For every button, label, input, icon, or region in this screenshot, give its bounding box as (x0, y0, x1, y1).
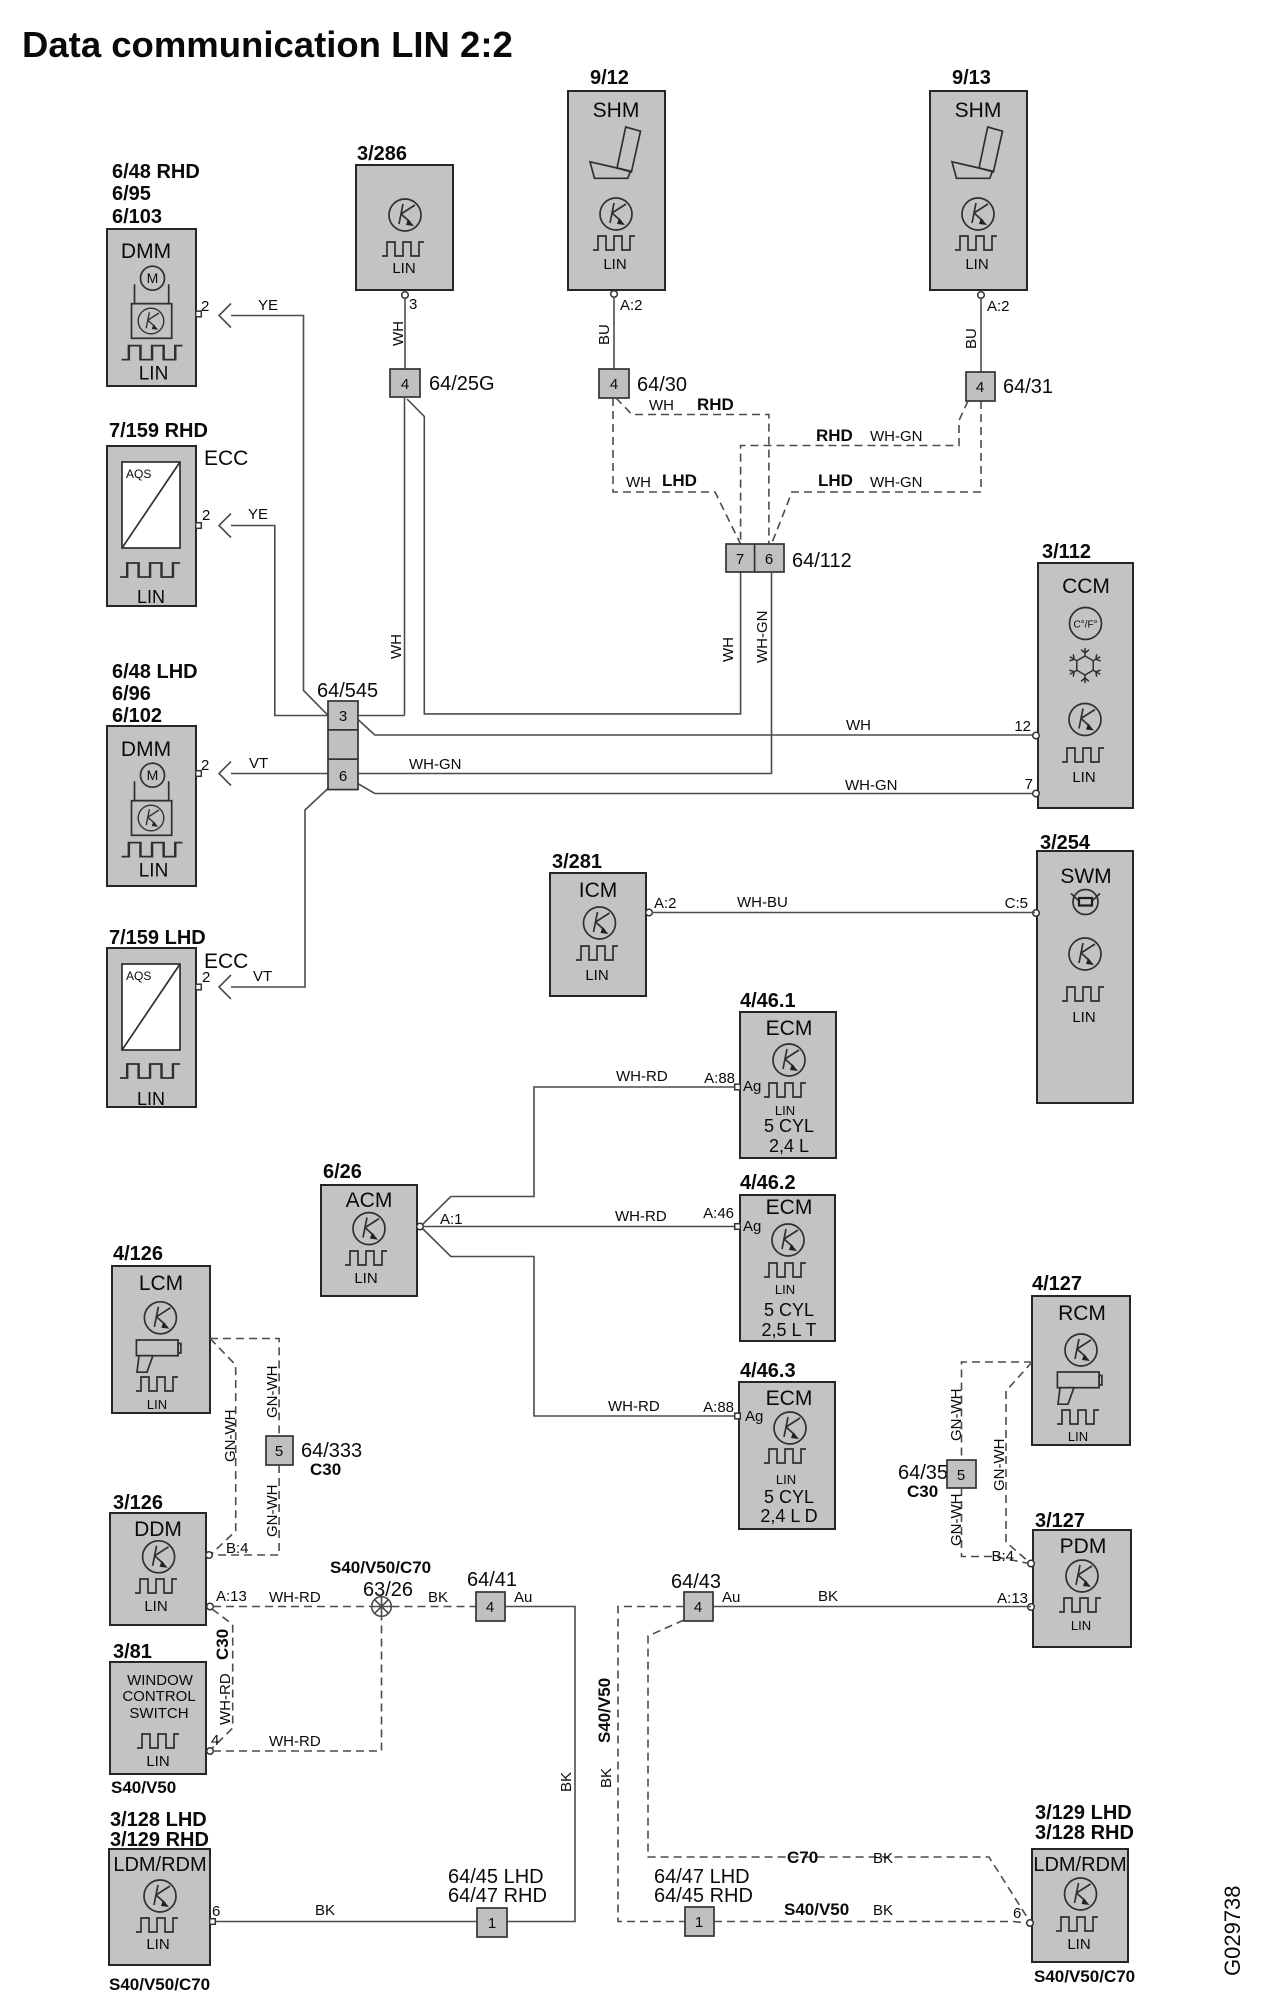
wire WH RHD 64/30 to 64/112 pin 6 (dashed) (616, 395, 769, 544)
module ECM 4/46.3 (739, 1360, 835, 1529)
svg-text:3: 3 (339, 708, 347, 725)
pin A:2 of ICM (646, 909, 653, 916)
svg-text:7: 7 (736, 551, 744, 568)
svg-text:64/31: 64/31 (1003, 376, 1053, 398)
pin B:4 of DDM (206, 1552, 213, 1559)
svg-text:3/129 LHD: 3/129 LHD (1035, 1802, 1132, 1824)
svg-text:SHM: SHM (593, 99, 640, 122)
svg-text:SWITCH: SWITCH (129, 1705, 188, 1722)
module WINDOW CONTROL SWITCH 3/81 (110, 1641, 206, 1797)
svg-text:GN-WH: GN-WH (948, 1494, 965, 1547)
svg-text:GN-WH: GN-WH (264, 1485, 281, 1538)
svg-text:A:13: A:13 (216, 1588, 247, 1605)
svg-text:YE: YE (258, 297, 278, 314)
svg-text:5 CYL: 5 CYL (764, 1487, 814, 1507)
wire WH-RD ACM to ECM 4/46.1 pin A:88 (423, 1068, 735, 1224)
connector 64/112 pins 7 and 6 (726, 544, 852, 572)
pin 2 of ECC LHD (196, 984, 202, 990)
svg-text:9/13: 9/13 (952, 67, 991, 89)
module CCM 3/112 (1038, 541, 1133, 808)
svg-text:LIN: LIN (146, 1936, 169, 1953)
svg-text:C70: C70 (787, 1848, 818, 1867)
svg-text:Au: Au (514, 1589, 532, 1606)
svg-text:2: 2 (201, 757, 209, 774)
svg-text:LIN: LIN (137, 1089, 165, 1109)
svg-text:LDM/RDM: LDM/RDM (113, 1854, 206, 1876)
svg-text:64/35: 64/35 (898, 1462, 948, 1484)
svg-text:7/159 LHD: 7/159 LHD (109, 927, 206, 949)
svg-text:C30: C30 (310, 1460, 341, 1479)
svg-text:WH-RD: WH-RD (615, 1208, 667, 1225)
wire C70 BK 64/43 to LDM/RDM right pin 6 (dashed) (648, 1620, 1030, 1921)
svg-text:LCM: LCM (139, 1272, 183, 1295)
svg-text:RCM: RCM (1058, 1302, 1106, 1325)
module SHM 9/12 (568, 67, 665, 290)
svg-text:LIN: LIN (775, 1282, 795, 1297)
svg-text:3/126: 3/126 (113, 1492, 163, 1514)
wire BK splice to 64/41 (dashed) (392, 1589, 477, 1607)
svg-text:BU: BU (596, 324, 613, 345)
svg-text:6/26: 6/26 (323, 1161, 362, 1183)
svg-text:6/102: 6/102 (112, 705, 162, 727)
svg-text:BK: BK (598, 1768, 615, 1788)
svg-text:CCM: CCM (1062, 575, 1110, 598)
svg-text:BK: BK (558, 1772, 575, 1792)
svg-text:B:4: B:4 (226, 1540, 249, 1557)
svg-text:64/112: 64/112 (792, 550, 852, 572)
svg-text:C30: C30 (907, 1482, 938, 1501)
svg-text:WH-RD: WH-RD (217, 1673, 234, 1725)
svg-text:4/46.3: 4/46.3 (740, 1360, 796, 1382)
connector 64/47 LHD / 64/45 RHD (654, 1866, 753, 1936)
svg-text:2,4 L D: 2,4 L D (760, 1506, 817, 1526)
svg-text:BK: BK (315, 1902, 335, 1919)
connector 64/545 pins 3 and 6 (317, 680, 378, 790)
svg-text:S40/V50: S40/V50 (784, 1900, 849, 1919)
svg-text:A:2: A:2 (620, 297, 643, 314)
pin 6 of LDM/RDM right (1027, 1920, 1034, 1927)
svg-text:LIN: LIN (1072, 769, 1095, 786)
module ACM 6/26 (321, 1161, 417, 1296)
svg-text:ICM: ICM (579, 879, 618, 902)
svg-text:A:2: A:2 (654, 895, 677, 912)
module PDM 3/127 (1033, 1510, 1131, 1647)
svg-text:A:13: A:13 (997, 1590, 1028, 1607)
module LDM/RDM 3/128 LHD left (109, 1809, 210, 1994)
module ECC 7/159 RHD (107, 420, 248, 607)
svg-text:WH-RD: WH-RD (608, 1398, 660, 1415)
svg-text:64/333: 64/333 (301, 1440, 362, 1462)
svg-text:SWM: SWM (1060, 865, 1111, 888)
svg-text:5 CYL: 5 CYL (764, 1300, 814, 1320)
svg-text:C:5: C:5 (1005, 895, 1028, 912)
svg-text:64/30: 64/30 (637, 374, 687, 396)
wire YE DMM RHD to 64/545 pin 3 (219, 297, 328, 715)
svg-text:DMM: DMM (121, 240, 171, 263)
svg-text:4: 4 (211, 1732, 219, 1749)
svg-text:2,5 L T: 2,5 L T (761, 1320, 816, 1340)
svg-text:6: 6 (339, 768, 347, 785)
wire GN-WH LCM through 64/333 (dashed) (210, 1339, 281, 1437)
svg-text:LIN: LIN (585, 967, 608, 984)
wire WH-RD DDM A:13 to splice 63/26 (dashed) (213, 1589, 371, 1607)
wire C30 WH-RD DDM A:13 to window switch pin 4 (dashed) (212, 1609, 234, 1749)
wire BK 64/43 to PDM A:13 (solid) (713, 1588, 1031, 1607)
svg-text:1: 1 (695, 1914, 703, 1931)
svg-text:LIN: LIN (146, 1753, 169, 1770)
svg-text:64/43: 64/43 (671, 1571, 721, 1593)
svg-text:WH: WH (388, 634, 405, 659)
svg-text:BK: BK (873, 1850, 893, 1867)
svg-text:1: 1 (488, 1915, 496, 1932)
svg-text:Au: Au (722, 1589, 740, 1606)
pin A:88 of ECM 4/46.3 (735, 1413, 741, 1419)
svg-text:6: 6 (1013, 1905, 1021, 1922)
wire VT ECC LHD to 64/545 pin 6 (219, 789, 328, 1000)
svg-text:6/103: 6/103 (112, 206, 162, 228)
svg-text:WH: WH (390, 321, 407, 346)
svg-text:7: 7 (1025, 776, 1033, 793)
svg-text:WH-BU: WH-BU (737, 894, 788, 911)
pin 2 of DMM RHD (196, 311, 202, 317)
svg-text:6: 6 (765, 551, 773, 568)
svg-text:G029738: G029738 (1220, 1885, 1245, 1976)
module 3/286 LIN node (356, 143, 453, 290)
svg-text:B:4: B:4 (991, 1548, 1014, 1565)
svg-text:4: 4 (976, 379, 984, 396)
svg-text:S40/V50/C70: S40/V50/C70 (330, 1558, 431, 1577)
svg-text:ECM: ECM (766, 1387, 813, 1410)
wire WH-RD ACM to ECM 4/46.3 pin A:88 (423, 1229, 735, 1416)
svg-text:LIN: LIN (137, 587, 165, 607)
svg-text:BK: BK (818, 1588, 838, 1605)
svg-text:4/46.2: 4/46.2 (740, 1172, 796, 1194)
module RCM 4/127 (1032, 1273, 1130, 1445)
svg-text:12: 12 (1014, 718, 1031, 735)
wire BK 64/41 to 64/45 LHD connector (solid) (505, 1607, 575, 1922)
svg-text:LIN: LIN (1067, 1936, 1090, 1953)
svg-text:C30: C30 (213, 1629, 232, 1660)
wire GN-WH RCM to PDM B:4 direct (dashed) (991, 1362, 1032, 1562)
svg-text:SHM: SHM (955, 99, 1002, 122)
svg-text:LHD: LHD (662, 471, 697, 490)
svg-text:S40/V50/C70: S40/V50/C70 (1034, 1967, 1135, 1986)
wire WH 64/545 pin 3 to CCM pin 12 (359, 717, 1036, 735)
wire WH LHD 64/30 to 64/112 pin 7 (dashed) (613, 398, 741, 544)
wire S40/V50 BK 64/47 to LDM/RDM right pin 6 (dashed) (714, 1900, 1028, 1923)
wire BU SHM 9/13 to 64/31 (980, 298, 982, 372)
svg-text:4: 4 (486, 1599, 494, 1616)
svg-text:3: 3 (409, 296, 417, 313)
svg-text:3/129 RHD: 3/129 RHD (110, 1829, 209, 1851)
svg-text:Ag: Ag (745, 1408, 763, 1425)
svg-text:ECC: ECC (204, 950, 248, 973)
pin 12 of CCM (1033, 732, 1040, 739)
svg-text:WH: WH (720, 637, 737, 662)
svg-text:2: 2 (202, 969, 210, 986)
splice 63/26 S40/V50/C70 (330, 1558, 431, 1617)
svg-text:ECC: ECC (204, 447, 248, 470)
wire WH-BU ICM to SWM C:5 (652, 894, 1035, 913)
svg-text:S40/V50: S40/V50 (595, 1678, 614, 1743)
svg-text:7/159 RHD: 7/159 RHD (109, 420, 208, 442)
svg-text:6/95: 6/95 (112, 183, 151, 205)
svg-text:PDM: PDM (1060, 1535, 1107, 1558)
svg-text:ACM: ACM (346, 1189, 393, 1212)
pin 3 of 3/286 (402, 292, 409, 299)
wire WH 64/25G down to 64/545 pin 3 (359, 397, 406, 716)
module SHM 9/13 (930, 67, 1027, 290)
pin 2 of DMM LHD (196, 771, 202, 777)
connector 64/25G (390, 369, 495, 397)
svg-text:4: 4 (401, 376, 409, 393)
wire BU SHM 9/12 to 64/30 (613, 297, 615, 369)
svg-text:3/127: 3/127 (1035, 1510, 1085, 1532)
svg-text:6: 6 (212, 1903, 220, 1920)
svg-text:BK: BK (428, 1589, 448, 1606)
svg-text:WH-GN: WH-GN (870, 474, 923, 491)
svg-text:LIN: LIN (354, 1270, 377, 1287)
svg-text:4/126: 4/126 (113, 1243, 163, 1265)
svg-text:GN-WH: GN-WH (222, 1410, 239, 1463)
pin C:5 of SWM (1033, 910, 1040, 917)
svg-text:3/286: 3/286 (357, 143, 407, 165)
svg-text:5 CYL: 5 CYL (764, 1116, 814, 1136)
svg-text:LIN: LIN (776, 1472, 796, 1487)
wire WH-GN RHD 64/31 to 64/112 pin 7 (dashed) (741, 401, 968, 544)
pin A:2 of SHM 9/13 (978, 292, 985, 299)
svg-text:6/48 RHD: 6/48 RHD (112, 161, 200, 183)
module DMM 6/48 RHD (107, 161, 200, 386)
svg-text:3/112: 3/112 (1042, 541, 1091, 563)
svg-text:2: 2 (202, 507, 210, 524)
svg-text:4: 4 (694, 1599, 702, 1616)
module SWM 3/254 (1037, 832, 1133, 1103)
wire WH-GN 64/545 pin 6 to CCM pin 7 (359, 777, 1036, 794)
svg-text:A:46: A:46 (703, 1205, 734, 1222)
svg-text:A:88: A:88 (704, 1070, 735, 1087)
svg-text:GN-WH: GN-WH (991, 1439, 1008, 1492)
module ECM 4/46.2 (740, 1172, 835, 1341)
pin A:13 of PDM (1028, 1604, 1035, 1611)
svg-text:LIN: LIN (144, 1598, 167, 1615)
svg-text:2,4 L: 2,4 L (769, 1136, 809, 1156)
svg-text:WH-RD: WH-RD (269, 1733, 321, 1750)
module ECM 4/46.1 (740, 990, 836, 1158)
svg-text:LIN: LIN (965, 256, 988, 273)
wire WH-RD window switch pin 4 to splice (dashed) (213, 1617, 382, 1752)
pin A:2 of SHM 9/12 (611, 291, 618, 298)
svg-text:4/46.1: 4/46.1 (740, 990, 796, 1012)
module DDM 3/126 (110, 1492, 206, 1625)
svg-text:63/26: 63/26 (363, 1579, 413, 1601)
svg-text:ECM: ECM (766, 1017, 813, 1040)
svg-text:LIN: LIN (1071, 1618, 1091, 1633)
connector 64/30 (599, 369, 687, 398)
svg-text:DMM: DMM (121, 738, 171, 761)
svg-text:BU: BU (963, 328, 980, 349)
module ECC 7/159 LHD (107, 927, 248, 1109)
pin 4 of window control switch (207, 1748, 214, 1755)
pin 6 of LDM/RDM left (210, 1919, 216, 1925)
svg-text:LIN: LIN (392, 260, 415, 277)
svg-text:VT: VT (249, 755, 268, 772)
svg-text:LDM/RDM: LDM/RDM (1033, 1854, 1126, 1876)
svg-text:LIN: LIN (603, 256, 626, 273)
svg-text:6/96: 6/96 (112, 683, 151, 705)
svg-text:GN-WH: GN-WH (948, 1389, 965, 1442)
pin 7 of CCM (1033, 790, 1040, 797)
pin A:88 of ECM 4/46.1 (735, 1084, 741, 1090)
svg-text:WH: WH (846, 717, 871, 734)
svg-text:WH-GN: WH-GN (870, 428, 923, 445)
svg-text:4/127: 4/127 (1032, 1273, 1082, 1295)
svg-text:A:1: A:1 (440, 1211, 463, 1228)
svg-text:3/281: 3/281 (552, 851, 602, 873)
module LDM/RDM 3/129 LHD right (1032, 1802, 1135, 1986)
svg-text:3/81: 3/81 (113, 1641, 152, 1663)
svg-text:64/25G: 64/25G (429, 373, 495, 395)
pin A:46 of ECM 4/46.2 (735, 1224, 741, 1230)
wire S40/V50 BK 64/43 to 64/47 LHD connector (dashed) (595, 1607, 685, 1922)
connector 64/35 C30 (898, 1460, 976, 1501)
svg-text:WH: WH (626, 474, 651, 491)
svg-text:9/12: 9/12 (590, 67, 629, 89)
wire WH-GN LHD 64/31 to 64/112 pin 6 (dashed) (772, 401, 982, 544)
svg-text:RHD: RHD (816, 426, 853, 445)
svg-text:Data communication LIN 2:2: Data communication LIN 2:2 (22, 24, 513, 65)
svg-text:WH: WH (649, 397, 674, 414)
svg-text:S40/V50: S40/V50 (111, 1778, 176, 1797)
svg-text:LIN: LIN (147, 1397, 167, 1412)
svg-text:64/545: 64/545 (317, 680, 378, 702)
svg-text:A:2: A:2 (987, 298, 1010, 315)
svg-text:WINDOW: WINDOW (127, 1672, 194, 1689)
svg-text:6/48 LHD: 6/48 LHD (112, 661, 198, 683)
svg-text:RHD: RHD (697, 395, 734, 414)
connector 64/43 (671, 1571, 740, 1621)
svg-text:WH-RD: WH-RD (616, 1068, 668, 1085)
svg-text:3/128 LHD: 3/128 LHD (110, 1809, 207, 1831)
wire VT DMM LHD to 64/545 pin 6 (219, 755, 328, 786)
svg-text:64/47 RHD: 64/47 RHD (448, 1885, 547, 1907)
svg-text:DDM: DDM (134, 1518, 182, 1541)
connector 64/333 C30 (266, 1436, 362, 1479)
svg-text:LIN: LIN (1072, 1009, 1095, 1026)
wire GN-WH 64/35 to PDM B:4 (dashed) (948, 1488, 1029, 1564)
svg-text:GN-WH: GN-WH (264, 1366, 281, 1419)
wire WH 3/286 to 64/25G (404, 298, 406, 369)
wire WH-RD ACM to ECM 4/46.2 pin A:46 (423, 1208, 734, 1227)
svg-text:LIN: LIN (1068, 1429, 1088, 1444)
svg-text:2: 2 (201, 298, 209, 315)
wire GN-WH 64/333 to DDM B:4 (dashed) (213, 1465, 281, 1555)
svg-text:CONTROL: CONTROL (122, 1688, 195, 1705)
svg-text:BK: BK (873, 1902, 893, 1919)
pin A:13 of DDM (207, 1603, 214, 1610)
svg-text:LHD: LHD (818, 471, 853, 490)
pin B:4 of PDM (1028, 1560, 1035, 1567)
svg-text:3/128 RHD: 3/128 RHD (1035, 1822, 1134, 1844)
svg-text:A:88: A:88 (703, 1399, 734, 1416)
module DMM 6/48 LHD (107, 661, 198, 886)
svg-text:YE: YE (248, 506, 268, 523)
svg-text:64/45 RHD: 64/45 RHD (654, 1885, 753, 1907)
wire WH 64/25G branch to 64/112 pin 7 (407, 399, 741, 714)
svg-text:Ag: Ag (743, 1218, 761, 1235)
svg-text:Ag: Ag (743, 1078, 761, 1095)
connector 64/41 (467, 1569, 532, 1621)
svg-text:WH-RD: WH-RD (269, 1589, 321, 1606)
wire YE ECC RHD to 64/545 pin 3 (219, 506, 328, 716)
svg-text:ECM: ECM (766, 1196, 813, 1219)
module LCM 4/126 (112, 1243, 210, 1413)
wire GN-WH LCM to DDM B:4 direct (dashed) (210, 1339, 239, 1554)
svg-text:64/41: 64/41 (467, 1569, 517, 1591)
svg-text:5: 5 (957, 1467, 965, 1484)
wire BK 64/45 to LDM/RDM left pin 6 (solid) (213, 1902, 477, 1922)
module ICM 3/281 (550, 851, 646, 996)
wire WH-GN 64/112 pin 6 down to 64/545 pin 6 (359, 572, 772, 774)
svg-text:WH-GN: WH-GN (754, 611, 771, 664)
wire GN-WH RCM through 64/35 (dashed) (948, 1362, 1032, 1460)
svg-text:WH-GN: WH-GN (409, 756, 462, 773)
svg-text:4: 4 (610, 376, 618, 393)
svg-text:S40/V50/C70: S40/V50/C70 (109, 1975, 210, 1994)
svg-text:VT: VT (253, 968, 272, 985)
pin A:1 of ACM (417, 1223, 424, 1230)
svg-text:5: 5 (275, 1443, 283, 1460)
connector 64/45 LHD / 64/47 RHD (448, 1866, 547, 1937)
svg-text:WH-GN: WH-GN (845, 777, 898, 794)
connector 64/31 (966, 372, 1053, 401)
pin 2 of ECC RHD (196, 523, 202, 529)
